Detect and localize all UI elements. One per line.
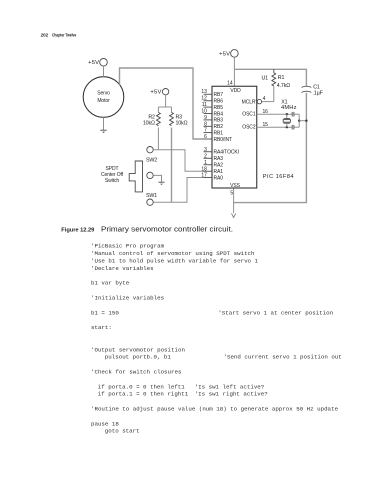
svg-text:pause 18: pause 18 — [91, 420, 119, 427]
svg-text:4MHz: 4MHz — [281, 105, 297, 111]
svg-text:'Is sw1 left active?: 'Is sw1 left active? — [195, 383, 265, 390]
svg-text:b1 var byte: b1 var byte — [91, 280, 130, 287]
svg-text:R1: R1 — [278, 75, 285, 81]
svg-text:3: 3 — [204, 147, 207, 153]
svg-text:202: 202 — [41, 33, 49, 39]
svg-text:RB1: RB1 — [214, 130, 224, 136]
svg-text:9: 9 — [204, 115, 207, 121]
svg-text:'Declare variables: 'Declare variables — [91, 265, 154, 272]
svg-text:pulsout portb.0, b1: pulsout portb.0, b1 — [105, 354, 172, 361]
svg-text:b1 = 150: b1 = 150 — [91, 309, 119, 316]
svg-text:RB4: RB4 — [214, 111, 224, 117]
svg-text:VDD: VDD — [230, 88, 241, 94]
svg-text:MCLR': MCLR' — [242, 100, 257, 106]
svg-text:if porta.1 = 0 then right1: if porta.1 = 0 then right1 — [98, 391, 189, 398]
svg-text:RA4/TOCKI: RA4/TOCKI — [214, 150, 239, 156]
svg-text:RA1: RA1 — [214, 169, 224, 175]
svg-text:RB6: RB6 — [214, 99, 224, 105]
svg-text:SW1: SW1 — [146, 193, 157, 199]
svg-text:Primary servomotor controller: Primary servomotor controller circuit. — [101, 226, 233, 233]
svg-text:'Initialize variables: 'Initialize variables — [91, 295, 164, 302]
svg-text:goto start: goto start — [105, 428, 140, 435]
svg-text:start:: start: — [91, 324, 112, 331]
svg-text:10kΩ: 10kΩ — [143, 121, 155, 127]
svg-text:'Routine to adjust pause value: 'Routine to adjust pause value (num 18) … — [91, 406, 339, 413]
svg-text:'Output servomotor position: 'Output servomotor position — [91, 346, 185, 353]
svg-text:VSS: VSS — [230, 183, 240, 189]
svg-text:4.7kΩ: 4.7kΩ — [277, 83, 290, 89]
svg-text:11: 11 — [202, 102, 207, 108]
svg-text:10kΩ: 10kΩ — [176, 121, 188, 127]
svg-text:14: 14 — [227, 81, 233, 87]
svg-text:U1: U1 — [262, 76, 269, 82]
svg-text:10: 10 — [201, 109, 207, 115]
svg-text:+5V: +5V — [219, 51, 230, 57]
svg-text:5: 5 — [230, 190, 233, 196]
svg-text:2: 2 — [204, 153, 207, 159]
svg-text:12: 12 — [201, 96, 207, 102]
svg-text:'Manual control of servomotor: 'Manual control of servomotor using SPDT… — [91, 250, 255, 257]
svg-text:Motor: Motor — [97, 98, 110, 104]
svg-text:7: 7 — [204, 128, 207, 134]
svg-text:OSC1: OSC1 — [242, 111, 256, 117]
svg-text:Switch: Switch — [105, 178, 119, 184]
svg-text:if porta.0 = 0 then left1: if porta.0 = 0 then left1 — [98, 383, 185, 390]
svg-text:Chapter Twelve: Chapter Twelve — [52, 33, 76, 39]
svg-text:.1µF: .1µF — [313, 91, 324, 97]
svg-text:RB7: RB7 — [214, 92, 224, 98]
svg-text:RB5: RB5 — [214, 105, 224, 111]
svg-text:RA2: RA2 — [214, 163, 224, 169]
svg-text:RB2: RB2 — [214, 124, 224, 130]
svg-text:RB0/INT: RB0/INT — [214, 137, 233, 143]
svg-text:6: 6 — [204, 134, 207, 140]
svg-text:'Check for switch closures: 'Check for switch closures — [91, 369, 181, 376]
svg-text:Servo: Servo — [97, 91, 110, 97]
svg-text:Figure 12.29: Figure 12.29 — [61, 227, 94, 233]
svg-text:RB3: RB3 — [214, 118, 224, 124]
svg-text:8: 8 — [204, 121, 207, 127]
svg-text:'Use b1 to hold pulse width va: 'Use b1 to hold pulse width variable for… — [91, 258, 258, 265]
svg-text:'Is sw1 right active?: 'Is sw1 right active? — [195, 391, 269, 398]
svg-text:+5V: +5V — [88, 60, 99, 66]
svg-text:RA0: RA0 — [214, 175, 224, 181]
svg-text:'PicBasic Pro program: 'PicBasic Pro program — [91, 243, 165, 250]
svg-text:13: 13 — [201, 89, 207, 95]
svg-text:RA3: RA3 — [214, 156, 224, 162]
svg-text:SW2: SW2 — [146, 158, 157, 164]
svg-text:1: 1 — [204, 160, 207, 166]
svg-text:OSC2: OSC2 — [242, 124, 256, 130]
svg-text:+5V: +5V — [150, 90, 161, 96]
svg-text:PIC 16F84: PIC 16F84 — [263, 174, 294, 180]
svg-text:'Start servo 1 at center posit: 'Start servo 1 at center position — [218, 309, 333, 316]
svg-text:'Send current servo 1 position: 'Send current servo 1 position out — [224, 354, 342, 361]
svg-text:4: 4 — [263, 96, 266, 102]
